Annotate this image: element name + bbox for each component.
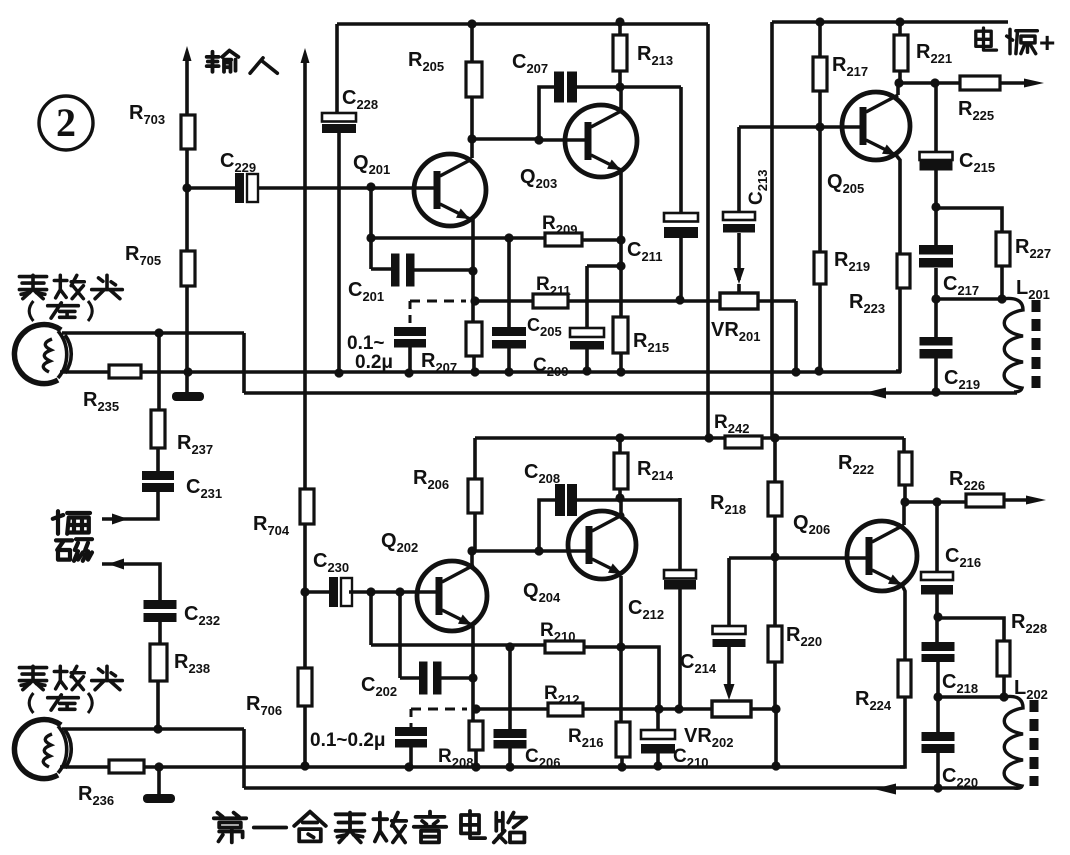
caption char 1 xyxy=(214,813,246,843)
capacitor C208 xyxy=(555,484,565,516)
wire mid supply to R206 xyxy=(473,438,477,479)
svg-text:R220: R220 xyxy=(786,624,822,649)
junction C216/C218/R228 xyxy=(933,612,942,621)
wire R209 to emitter xyxy=(582,238,621,242)
wire top-right supply rail xyxy=(772,20,1008,24)
junction rail/R217 xyxy=(815,17,824,26)
svg-text:C216: C216 xyxy=(945,545,981,570)
svg-text:R214: R214 xyxy=(637,458,674,483)
node Q201 base xyxy=(366,182,375,191)
wire collector to R226 xyxy=(905,500,966,504)
resistor R221 xyxy=(894,35,908,71)
wiper arrow into VR201 xyxy=(734,268,745,284)
svg-text:R223: R223 xyxy=(849,291,885,316)
resistor R224 xyxy=(898,660,911,697)
wire rail B xyxy=(244,391,1017,395)
caption char 5 xyxy=(373,813,406,843)
wire R212 to VR202 xyxy=(583,707,712,711)
svg-text:Q202: Q202 xyxy=(381,530,418,555)
capacitor C219 xyxy=(920,337,953,346)
resistor R208 xyxy=(469,721,483,750)
junction ground stub/rail A2 xyxy=(154,762,163,771)
wire to C216 xyxy=(935,502,939,572)
wire down to C205 xyxy=(585,266,589,328)
wire to Q206 base xyxy=(729,556,872,560)
svg-text:+: + xyxy=(1039,27,1055,58)
capacitor C231 xyxy=(142,471,174,480)
wire into Q203 base xyxy=(539,138,590,142)
text ) right xyxy=(88,693,92,713)
text 头 (left) xyxy=(92,275,123,298)
wire to L201 top xyxy=(936,297,1002,301)
junction emitter/C205 tap xyxy=(616,261,625,270)
svg-text:VR202: VR202 xyxy=(684,725,734,750)
wire Q206 base node down to C214 xyxy=(727,558,731,626)
junction R706/rail A2 xyxy=(300,761,309,770)
junction optional cap/rail A xyxy=(404,368,413,377)
wire base branch down xyxy=(369,188,373,269)
junction base branch/feedback wire xyxy=(366,233,375,242)
svg-text:R225: R225 xyxy=(958,98,994,123)
junction rail/R221 xyxy=(895,17,904,26)
capacitor C230 xyxy=(329,577,338,607)
wire node to C230 xyxy=(305,590,329,594)
svg-text:0.1~0.2μ: 0.1~0.2μ xyxy=(310,730,386,751)
wire R211 to VR201 xyxy=(568,299,720,303)
resistor R235 xyxy=(109,365,141,378)
wire optional cap 2 to rail A2 xyxy=(409,747,413,767)
junction R219/rail A xyxy=(814,366,823,375)
transistor Q202 xyxy=(417,561,487,631)
svg-text:R706: R706 xyxy=(246,693,282,718)
junction rail A x509 xyxy=(504,367,513,376)
resistor R226 xyxy=(966,494,1004,507)
junction feedback/C203 xyxy=(504,233,513,242)
wire down to C210 xyxy=(656,709,660,730)
wire C207 right xyxy=(576,85,681,89)
text 录 (left) xyxy=(19,275,46,298)
junction C217/C219/L201 xyxy=(931,294,940,303)
caption char 2 xyxy=(254,826,286,830)
svg-text:C213: C213 xyxy=(746,170,770,205)
svg-text:Q205: Q205 xyxy=(827,171,864,196)
wire C213 to VR201 wiper xyxy=(737,233,741,293)
wire Q205 base node down to C213 xyxy=(737,127,741,212)
junction C220/rail B2 xyxy=(933,783,942,792)
svg-text:C211: C211 xyxy=(627,239,662,264)
junction emitter/R210 xyxy=(616,642,625,651)
resistor R220 xyxy=(768,626,782,662)
node Q205 collector/output xyxy=(894,78,903,87)
capacitor C215 xyxy=(920,152,953,160)
svg-text:C219: C219 xyxy=(944,367,980,392)
output arrow (right channel) xyxy=(1026,496,1046,505)
wire R215 to rail A xyxy=(619,353,623,372)
wire node to R705 xyxy=(185,188,189,251)
junction C215 tap xyxy=(930,78,939,87)
wire down to C211 xyxy=(679,87,683,213)
wire up to C208 left xyxy=(539,500,555,551)
svg-text:R205: R205 xyxy=(408,49,444,74)
wire C215 to C217 xyxy=(934,170,938,245)
node Q202 collector xyxy=(467,546,476,555)
wire R218 to Q206 base xyxy=(773,516,777,557)
resistor R218 xyxy=(768,482,782,516)
wire Q202 collector up xyxy=(470,551,474,566)
wire base to R220 xyxy=(773,557,777,626)
wire to R237 xyxy=(157,333,161,410)
transistor Q204 xyxy=(568,511,636,579)
wire R238 to head-right top xyxy=(156,681,160,729)
resistor R706 xyxy=(298,668,312,706)
wire feedback to R209 xyxy=(371,236,545,240)
junction R238/head wire xyxy=(153,724,162,733)
node Q201 collector xyxy=(467,134,476,143)
wire to L202 top xyxy=(938,695,1004,699)
capacitor 0.1-0.2u (top) xyxy=(394,327,426,336)
junction C210 tap xyxy=(654,704,663,713)
svg-text:Q203: Q203 xyxy=(520,166,557,191)
wire head-right top xyxy=(62,727,244,731)
resistor R219 xyxy=(814,252,826,284)
wire supply drop x708 xyxy=(706,24,710,438)
wiper arrow into VR202 xyxy=(724,684,735,700)
junction VR201/rail A xyxy=(791,367,800,376)
wire down to C206 xyxy=(508,647,512,729)
wire emitter to R212 xyxy=(476,707,548,711)
junction R215/rail A xyxy=(616,367,625,376)
resistor R228 xyxy=(997,641,1010,676)
svg-text:C218: C218 xyxy=(942,671,978,696)
wire top-left supply rail xyxy=(337,22,708,26)
resistor R206 xyxy=(468,479,482,513)
bias arrow 2 xyxy=(108,559,124,570)
junction x772 drop/R242 xyxy=(770,433,779,442)
capacitor C206 xyxy=(494,729,527,738)
wire bias input 2 to C232 xyxy=(102,564,160,600)
node Q202 base branch xyxy=(366,587,375,596)
junction feedback/C206 xyxy=(505,642,514,651)
node R214/Q204 collector xyxy=(615,493,624,502)
potentiometer VR202 body xyxy=(712,701,751,717)
wire C214 to VR202 wiper xyxy=(727,647,731,686)
resistor R227 xyxy=(996,232,1010,266)
resistor R211 xyxy=(533,294,568,308)
wire emitter to R211 xyxy=(475,299,533,303)
wire down to C212 xyxy=(678,498,682,570)
wire C201 right to emitter xyxy=(414,268,473,272)
junction R228/L202 xyxy=(999,692,1008,701)
wire down to cap xyxy=(507,238,511,327)
resistor R222 xyxy=(899,452,912,485)
svg-text:C231: C231 xyxy=(186,476,222,501)
wire C212 to R212 line xyxy=(678,589,682,709)
wire C218 to C220 xyxy=(936,661,940,732)
text 源 xyxy=(1007,29,1038,53)
wire R217 to base xyxy=(818,91,822,127)
resistor R213 xyxy=(613,35,627,71)
junction C218/C220/L202 xyxy=(933,692,942,701)
svg-text:R210: R210 xyxy=(540,620,575,644)
capacitor C212 xyxy=(664,570,696,579)
wire R208 to rail A2 xyxy=(474,750,478,767)
svg-text:R228: R228 xyxy=(1011,611,1047,636)
svg-text:R224: R224 xyxy=(855,688,892,713)
wire R223 to rail A end xyxy=(896,288,900,371)
capacitor C214 xyxy=(713,626,746,634)
capacitor C218 xyxy=(922,642,955,651)
wire C205 tap xyxy=(587,264,621,268)
capacitor C217 xyxy=(919,245,953,255)
wire VR202 right xyxy=(751,707,776,711)
junction C206/rail A2 xyxy=(505,762,514,771)
capacitor C203 xyxy=(492,327,526,336)
wire C206 to rail A2 xyxy=(508,748,512,767)
resistor R217 xyxy=(813,57,827,91)
text 放 (right) xyxy=(54,666,84,689)
junction C212/R212 line xyxy=(674,704,683,713)
record-play head (left) symbol xyxy=(14,325,71,384)
wire head-left top xyxy=(62,331,244,335)
junction C228/rail A xyxy=(334,368,343,377)
capacitor C229 xyxy=(235,173,244,203)
wire R227 down xyxy=(1000,266,1004,299)
svg-text:C229: C229 xyxy=(220,150,256,175)
svg-text:R222: R222 xyxy=(838,452,874,477)
wire R220 down xyxy=(773,662,777,709)
junction R207/rail A xyxy=(470,367,479,376)
wire R221 down xyxy=(898,71,902,83)
wire R214 down xyxy=(618,489,622,498)
resistor R704 xyxy=(300,489,314,524)
text 放 (left) xyxy=(54,275,84,298)
junction C211/R211 line xyxy=(675,295,684,304)
text 偏 xyxy=(53,511,90,534)
dashed wire to optional cap 2 xyxy=(411,708,467,711)
wire mid supply left xyxy=(475,436,725,440)
input arrow (left channel) xyxy=(183,46,192,61)
wire mid supply right xyxy=(762,436,904,440)
junction bias branch xyxy=(154,328,163,337)
svg-text:R213: R213 xyxy=(637,43,673,68)
resistor R210 xyxy=(545,641,584,653)
svg-text:R218: R218 xyxy=(710,492,746,517)
node C202 tap xyxy=(395,587,404,596)
wire optional cap to rail A xyxy=(408,347,412,373)
wire R210 to emitter xyxy=(584,645,621,649)
text ( right xyxy=(29,693,33,713)
wire Q206 collector up xyxy=(902,502,906,525)
wire corner to rail B xyxy=(242,333,246,393)
transistor Q201 xyxy=(414,154,486,226)
resistor R236 xyxy=(109,760,144,773)
output arrow (left channel) xyxy=(1024,79,1044,88)
wire up to C207 left xyxy=(539,87,554,140)
svg-text:R703: R703 xyxy=(129,102,165,127)
wire C220 to rail B2 xyxy=(936,753,940,788)
resistor R214 xyxy=(614,453,628,489)
wire to rail A2 xyxy=(774,709,778,766)
svg-text:R704: R704 xyxy=(253,513,290,538)
svg-text:R226: R226 xyxy=(949,468,985,493)
capacitor 0.1-0.2u (bottom) xyxy=(395,727,427,736)
wire R704 to node/R706 xyxy=(303,524,307,668)
junction C201 right xyxy=(468,266,477,275)
junction emitter/R211 line xyxy=(470,296,479,305)
wire head-right bottom to R236 xyxy=(60,765,109,769)
svg-text:C209: C209 xyxy=(533,355,568,379)
junction C215/C217/R227 xyxy=(931,202,940,211)
wire ground stub xyxy=(157,767,161,794)
wire Q201 collector up xyxy=(470,139,474,158)
wire R205 to collector node xyxy=(470,97,474,139)
wire head-left bottom to R235 xyxy=(60,370,109,374)
wire C217 to C219 xyxy=(934,268,938,337)
capacitor C207 xyxy=(554,72,564,103)
text 录 (right) xyxy=(19,666,46,689)
wire rail to R205 xyxy=(470,24,474,62)
junction R220 chain/rail A2 xyxy=(771,761,780,770)
svg-text:R216: R216 xyxy=(568,726,603,750)
capacitor C210 xyxy=(641,730,675,739)
svg-text:C228: C228 xyxy=(342,87,378,112)
wire Q204 collector up xyxy=(619,498,623,515)
inductor L202 xyxy=(1004,696,1023,788)
capacitor C232 xyxy=(144,600,177,609)
bias arrow 1 xyxy=(112,514,128,525)
record-play head (right) symbol xyxy=(14,720,71,779)
text 头 (right) xyxy=(92,666,123,689)
svg-text:C230: C230 xyxy=(313,550,349,575)
resistor R212 xyxy=(548,703,583,716)
junction C219/rail B xyxy=(931,387,940,396)
svg-text:R221: R221 xyxy=(916,41,952,66)
junction R217-R219/Q205 base xyxy=(815,122,824,131)
wire R219 to rail A xyxy=(818,284,822,371)
wire input2 down to R704 xyxy=(303,57,307,489)
wire jog to R227 xyxy=(936,208,1002,232)
svg-text:C208: C208 xyxy=(524,461,560,486)
svg-text:R215: R215 xyxy=(633,330,669,355)
wire C210 to rail A2 xyxy=(656,753,660,766)
wire Q204 emitter down xyxy=(619,576,623,722)
node Q206 collector/output xyxy=(900,497,909,506)
junction emitter/R209 xyxy=(616,235,625,244)
wire to C215 xyxy=(934,83,938,152)
svg-text:C207: C207 xyxy=(512,51,548,76)
wire supply drop x772 xyxy=(770,22,774,438)
junction optional cap2/rail A2 xyxy=(404,762,413,771)
wire rail to R213 xyxy=(618,22,622,35)
potentiometer VR201 body xyxy=(720,293,758,309)
wire node to C229 xyxy=(187,186,235,190)
wire collector to R225 xyxy=(899,81,960,85)
text 电 xyxy=(976,28,997,50)
wire Q205 collector up xyxy=(896,83,900,95)
resistor R225 xyxy=(960,76,1000,90)
svg-text:Q201: Q201 xyxy=(353,152,390,177)
capacitor C216 xyxy=(921,572,953,580)
resistor R223 xyxy=(897,254,910,288)
wire feedback to R210 xyxy=(371,643,545,647)
capacitor C228 xyxy=(322,113,356,122)
wire Q202 emitter down xyxy=(471,626,475,721)
svg-text:C214: C214 xyxy=(680,651,717,676)
junction R208/rail A2 xyxy=(471,762,480,771)
resistor R238 xyxy=(150,644,167,681)
junction C207 tap xyxy=(534,135,543,144)
resistor R216 xyxy=(616,722,630,757)
wire R237 to C231 xyxy=(156,448,160,471)
wire R213 down xyxy=(618,71,622,87)
inductor L201 xyxy=(1002,298,1023,392)
wire C202 right to emitter xyxy=(441,676,474,680)
dashed drop to optional cap xyxy=(409,301,412,327)
wire jog to R228 xyxy=(938,618,1004,641)
wire Q203 collector up xyxy=(619,87,623,110)
svg-text:R235: R235 xyxy=(83,389,119,414)
wire R225 to arrow xyxy=(1000,81,1030,85)
text 右 xyxy=(48,695,79,710)
wire R706 to rail A2 xyxy=(303,706,307,766)
junction R216/rail A2 xyxy=(617,762,626,771)
junction R705/rail A xyxy=(183,367,192,376)
svg-text:VR201: VR201 xyxy=(711,319,761,344)
dashed drop to optional cap 2 xyxy=(410,709,413,727)
ground bar left-top head xyxy=(172,392,204,401)
capacitor C220 xyxy=(922,732,955,741)
node input1/C229 xyxy=(182,183,191,192)
wire Q203 emitter down xyxy=(619,172,623,317)
text 磁 xyxy=(56,539,92,561)
wire C216 to C218 xyxy=(935,594,939,642)
svg-text:0.1~: 0.1~ xyxy=(347,333,385,354)
capacitor C213 xyxy=(723,212,755,220)
wire rail to R221 xyxy=(898,22,902,35)
wire VR201 right xyxy=(758,299,796,303)
junction C216 tap xyxy=(932,497,941,506)
junction emitter/R212 line xyxy=(471,704,480,713)
junction VR202/R220 xyxy=(771,704,780,713)
resistor R209 xyxy=(545,233,582,246)
wire to C201 left xyxy=(371,267,391,271)
capacitor C205 xyxy=(570,328,604,337)
wire R226 to arrow xyxy=(1004,498,1032,502)
svg-text:C232: C232 xyxy=(184,603,220,628)
transistor Q205 xyxy=(842,92,910,160)
wire base branch down xyxy=(369,592,373,645)
wire C205 to rail A xyxy=(585,349,589,371)
wire mid supply to R218 xyxy=(773,438,777,482)
svg-text:C212: C212 xyxy=(628,597,664,622)
wire C211 to R211 line xyxy=(679,238,683,300)
wire R216 to rail A2 xyxy=(620,757,624,767)
svg-text:2: 2 xyxy=(56,100,76,145)
resistor R705 xyxy=(181,251,195,286)
capacitor C201 xyxy=(391,254,400,287)
wire R207 to rail A xyxy=(472,356,476,372)
wire L tap to R212 line xyxy=(622,647,659,709)
svg-text:R211: R211 xyxy=(536,274,571,298)
wire rail A2 xyxy=(144,765,905,769)
wire C219 to rail B xyxy=(934,358,938,392)
text 左 xyxy=(48,303,79,318)
dashed wire to optional cap xyxy=(410,300,466,303)
wire C202 left arm xyxy=(398,592,402,678)
wire R228 down xyxy=(1002,676,1006,697)
caption char 8 xyxy=(494,813,526,843)
resistor R242 xyxy=(725,436,762,448)
